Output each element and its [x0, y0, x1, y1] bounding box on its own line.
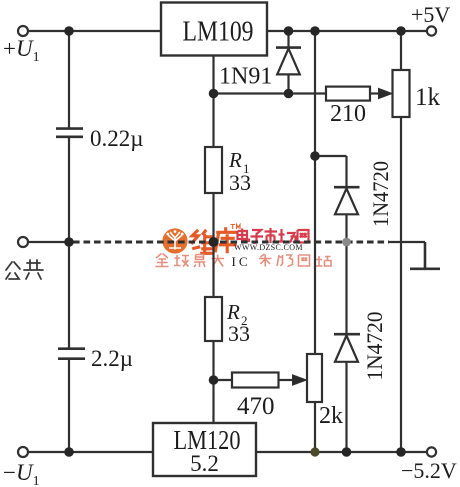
junction 470 node	[209, 375, 219, 385]
wire branch to zener D1	[315, 155, 347, 157]
zener 1N4720 D1 cathode bar	[334, 186, 360, 189]
wire left input rail x=69 upper	[68, 31, 70, 128]
wire common dashed line	[73, 241, 389, 244]
watermark slogan 全球最大IC采购网站	[156, 254, 225, 268]
terminal +5V	[427, 26, 436, 35]
wire bottom rail from LM120 to -5.2V terminal	[256, 451, 427, 453]
wire 210 to wiper arrow	[370, 92, 379, 94]
watermark 电	[238, 229, 250, 242]
wire 470 to wiper arrow	[279, 379, 294, 381]
junction zener common (gray)	[342, 238, 351, 247]
svg-text:1N4720: 1N4720	[362, 312, 387, 381]
wire middle rail R2 bottom to LM120 top pin	[212, 341, 214, 423]
svg-text:1k: 1k	[415, 84, 441, 111]
zener 1N4720 D2 anode lead	[345, 362, 347, 452]
svg-text:33: 33	[228, 321, 250, 346]
svg-text:−5.2V: −5.2V	[401, 458, 457, 483]
svg-text:2k: 2k	[319, 403, 343, 429]
junction 1k top	[396, 26, 406, 36]
regulator U2 LM120 box	[153, 423, 256, 476]
junction 1N91 top	[284, 26, 294, 36]
zener 1N4720 D2 cathode bar	[334, 333, 360, 336]
wire top rail from LM109 output to +5V terminal	[267, 30, 427, 32]
svg-text:−U1: −U1	[3, 460, 40, 487]
regulator U1 LM109 box	[161, 3, 267, 56]
wiper arrow of 1k pot	[379, 88, 393, 98]
watermark 库	[215, 227, 237, 253]
junction -U1 rail	[64, 447, 74, 457]
watermark 网	[298, 230, 309, 243]
zener 1N4720 D1 triangle	[335, 189, 358, 215]
zener 1N4720 D2 triangle	[335, 336, 358, 362]
junction divider mid common	[209, 237, 219, 247]
watermark 维	[191, 230, 214, 254]
junction rail315 top	[310, 26, 320, 36]
junction +U1 rail	[64, 26, 74, 36]
capacitor C1 0.22u bottom plate	[56, 136, 83, 139]
terminal common	[18, 237, 28, 247]
wire bottom rail from -U1 to LM120	[28, 451, 153, 453]
svg-text:1N91: 1N91	[219, 64, 272, 90]
resistor 470 body	[232, 373, 279, 388]
resistor 210 body	[326, 87, 370, 101]
svg-text:210: 210	[330, 101, 366, 127]
label common 公共	[6, 260, 43, 279]
wire R2 junction to 470	[214, 379, 233, 381]
svg-text:R: R	[228, 148, 242, 172]
svg-text:33: 33	[229, 170, 251, 195]
junction right rail bottom	[396, 447, 406, 457]
resistor R2 body	[205, 297, 222, 341]
watermark logo disc	[162, 228, 187, 253]
capacitor C1 0.22u top plate	[56, 127, 83, 130]
potentiometer 1k body	[393, 70, 410, 117]
wire common line solid segment to ground	[389, 241, 425, 243]
zener 1N4720 D2 cathode lead from common	[345, 242, 347, 334]
svg-text:470: 470	[237, 393, 275, 420]
capacitor C2 2.2u top plate	[58, 347, 85, 350]
terminal +U1	[18, 26, 28, 36]
zener 1N4720 D1 cathode lead	[345, 156, 347, 187]
junction zener D2 bottom	[342, 447, 352, 457]
svg-text:0.22µ: 0.22µ	[90, 126, 144, 151]
svg-text:5.2: 5.2	[190, 451, 219, 476]
svg-text:2.2µ: 2.2µ	[91, 346, 133, 371]
wire common terminal stub	[28, 241, 69, 243]
terminal -U1	[18, 447, 28, 457]
wire 1k pot top lead	[400, 31, 402, 70]
wiper arrow of 2k pot	[293, 375, 307, 385]
wire LM109 ground pin	[212, 55, 214, 94]
svg-text:+5V: +5V	[411, 2, 450, 27]
svg-text:+U1: +U1	[3, 36, 40, 65]
svg-text:WWW.DZSC.COM: WWW.DZSC.COM	[234, 243, 303, 252]
ground symbol	[410, 242, 440, 269]
wire left input rail x=69 lower	[68, 359, 70, 452]
wire 1k pot bottom lead down right rail x=401	[400, 117, 402, 452]
wire rail x=315 lower to bottom rail	[314, 402, 316, 452]
terminal -5.2V	[427, 447, 436, 456]
junction 1N91 anode	[284, 89, 294, 99]
wire top rail from +U1 to LM109 input	[28, 30, 161, 32]
watermark TM	[231, 225, 241, 230]
svg-text:1N4720: 1N4720	[368, 161, 393, 227]
wire horizontal node y=93.5	[214, 92, 327, 94]
junction LM109 gnd node	[209, 89, 219, 99]
svg-text:IC: IC	[232, 254, 251, 269]
junction zener branch	[310, 151, 320, 161]
diode 1N91 triangle	[277, 49, 300, 75]
junction common left	[64, 237, 74, 247]
watermark 子	[251, 230, 264, 243]
diode 1N91 cathode bar	[276, 46, 301, 49]
wire middle rail R1 top	[212, 94, 214, 148]
watermark 市	[265, 228, 278, 243]
diode 1N91 anode lead	[287, 74, 289, 93]
wire left input rail x=69 middle	[68, 137, 70, 348]
capacitor C2 2.2u bottom plate	[58, 357, 85, 360]
junction rail315 bottom	[310, 447, 319, 456]
resistor R1 body	[205, 147, 222, 193]
svg-text:LM109: LM109	[183, 17, 254, 48]
wire middle rail R1 bottom to R2 top	[212, 193, 214, 297]
watermark 场	[278, 229, 296, 243]
potentiometer 2k body	[307, 354, 322, 402]
zener 1N4720 D1 anode lead to common	[345, 214, 347, 242]
diode 1N91 cathode lead	[287, 31, 289, 47]
wire rail x=315 upper	[314, 31, 316, 354]
